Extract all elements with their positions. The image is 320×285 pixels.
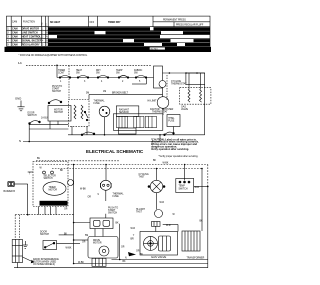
wire labels above [86, 91, 129, 95]
svg-text:CONT: CONT [58, 73, 65, 75]
gas valve coil labels [125, 228, 144, 260]
wire top y94.6 [89, 94, 163, 96]
svg-text:W-BK: W-BK [66, 248, 72, 250]
svg-text:SW: SW [134, 73, 139, 75]
svg-text:W: W [40, 168, 43, 170]
timer chart interval bars row5 [48, 43, 144, 46]
svg-text:SW: SW [116, 73, 121, 75]
svg-text:W-R: W-R [131, 228, 136, 230]
wire timer left tap [28, 171, 33, 173]
svg-text:SWITCH: SWITCH [179, 189, 188, 191]
timer chart row labels [7, 28, 48, 47]
wire chain stub [132, 78, 146, 85]
svg-text:SWITCH: SWITCH [44, 178, 53, 180]
cycling thermostat circle [159, 81, 166, 88]
svg-text:THERMOSTAT: THERMOSTAT [171, 83, 187, 86]
buzzer symbol [8, 181, 15, 186]
svg-text:N: N [19, 139, 21, 143]
timer contact switch 4 [118, 76, 129, 79]
radiant sensor box [116, 106, 139, 117]
svg-text:CAM: CAM [12, 32, 18, 35]
svg-text:DRIVE MOTOR: DRIVE MOTOR [22, 28, 39, 31]
timer sequence chart black title bar [5, 47, 212, 52]
timer chart header labels [12, 18, 204, 26]
cycling thermostat label [171, 81, 187, 86]
wire top right y73 [163, 72, 205, 74]
svg-text:ELECTRICAL SCHEMATIC: ELECTRICAL SCHEMATIC [86, 149, 144, 154]
ignitor sub box 3 [145, 116, 156, 127]
svg-text:1A BU: 1A BU [41, 117, 48, 120]
svg-text:3: 3 [42, 37, 44, 39]
svg-text:W: W [173, 214, 176, 216]
svg-text:THST: THST [136, 212, 143, 214]
svg-text:2: 2 [122, 81, 124, 83]
wire y129 [29, 128, 68, 130]
temp switch label [179, 186, 188, 191]
wire right bus dashed top [207, 165, 209, 187]
svg-text:OR: OR [88, 197, 92, 199]
svg-text:HI-LIMIT: HI-LIMIT [148, 101, 158, 103]
svg-text:T: T [29, 174, 31, 176]
svg-text:SWITCH: SWITCH [40, 234, 49, 236]
push-to-start label (lower) [108, 208, 118, 215]
svg-text:TIMER SEQUENCE CHART (60 HZ.): TIMER SEQUENCE CHART (60 HZ.) [8, 48, 86, 52]
gas valve coils dashed box [180, 88, 211, 105]
svg-text:THERMOSTAT: THERMOSTAT [152, 111, 168, 114]
svg-text:NO HEAT: NO HEAT [50, 21, 61, 24]
svg-text:SWITCH: SWITCH [52, 91, 61, 93]
door switch label [28, 113, 37, 118]
push-to-start switch symbol [48, 66, 69, 104]
right small box [186, 73, 205, 85]
wire N bus [23, 141, 160, 143]
timer right contact circle [68, 180, 74, 186]
svg-text:W-BK: W-BK [163, 163, 169, 165]
wire motor switch box drop 2 [57, 121, 59, 125]
wire right edge vertical [204, 85, 206, 135]
wire contact chain [57, 77, 154, 79]
svg-text:FUSE: FUSE [168, 121, 175, 123]
svg-text:FUSE: FUSE [113, 196, 120, 198]
svg-text:9: 9 [98, 194, 100, 196]
svg-text:Verify operation after servici: Verify operation after servicing. [151, 147, 189, 151]
wire labels bottom [64, 234, 126, 264]
svg-text:OR: OR [121, 247, 125, 249]
gas valve coil 1 [188, 90, 190, 103]
thermal fuse label (schematic) [94, 100, 106, 106]
cycling thermostat label (lower) [139, 174, 149, 179]
dashed timer boundary right [166, 75, 168, 100]
ignitor assembly box [113, 114, 162, 131]
wire motor drops [72, 126, 160, 141]
wire motor circle drop [104, 117, 106, 135]
svg-text:W-BK: W-BK [80, 189, 86, 191]
drive motor dashed box [68, 100, 89, 127]
svg-text:OR: OR [64, 209, 68, 211]
svg-text:CAM: CAM [12, 44, 18, 47]
gas valve box (lower) [140, 232, 178, 256]
svg-text:W-R: W-R [166, 225, 171, 227]
wire dashed top3 [52, 168, 202, 170]
svg-text:1: 1 [42, 29, 44, 31]
svg-text:BROKEN BELT: BROKEN BELT [112, 93, 129, 95]
filter ground symbol [23, 241, 28, 248]
svg-text:THST: THST [139, 177, 146, 179]
svg-text:(60 HZ.): (60 HZ.) [151, 48, 159, 50]
wire buzzer right [14, 183, 27, 185]
svg-text:3: 3 [84, 81, 86, 83]
timer contacts [43, 171, 54, 174]
thermal fuse label (lower) [113, 193, 125, 199]
wire thermal fuse to push-to-start [105, 214, 107, 218]
gas valve label (schematic) [181, 106, 189, 112]
svg-text:BR: BR [131, 239, 135, 241]
svg-text:TIMED DRY: TIMED DRY [108, 22, 121, 24]
svg-text:SW: SW [76, 73, 81, 75]
svg-text:BUZZER B: BUZZER B [4, 191, 16, 193]
timer motor ellipse [43, 182, 66, 196]
ground GND [15, 97, 25, 111]
wire line A y134.8 [68, 134, 205, 136]
svg-text:* FOR USE ON MODELS EQUIPPED W: * FOR USE ON MODELS EQUIPPED WITH DRYNES… [19, 55, 88, 57]
svg-text:OR: OR [82, 242, 86, 244]
motor switch box [48, 106, 71, 122]
svg-text:BK: BK [64, 234, 68, 236]
svg-text:4: 4 [7, 40, 9, 43]
svg-text:CAM: CAM [12, 36, 18, 39]
svg-text:W-R: W-R [195, 187, 200, 189]
svg-text:BK: BK [200, 221, 204, 223]
svg-text:A: A [46, 36, 48, 39]
svg-text:3: 3 [7, 36, 9, 39]
exhaust fan tall box [154, 66, 163, 88]
svg-text:BK: BK [60, 170, 64, 172]
wire filter bottom stub [17, 263, 19, 268]
wire thermal fuse down [105, 190, 107, 201]
wire coil drops [189, 73, 201, 90]
wire motor switch box drop [49, 121, 51, 129]
wire dashed left y214.7 [15, 214, 73, 216]
junction dots [169, 72, 198, 74]
wire temp switch to bus [194, 186, 208, 188]
svg-text:PRESS REGULAR FLUFF: PRESS REGULAR FLUFF [176, 24, 204, 27]
timer contact switch 5 [135, 76, 147, 79]
svg-text:5M: 5M [86, 93, 89, 95]
door switch symbol [29, 121, 41, 125]
push-to-start switch label [52, 86, 62, 93]
hi-limit label [148, 101, 169, 114]
svg-text:REGULAR DRY: REGULAR DRY [22, 44, 40, 47]
svg-text:BU: BU [140, 254, 144, 256]
push-to-start box (lower) [90, 218, 113, 229]
wire dashed left vertical 2 [18, 215, 20, 240]
drive motor circle M [99, 106, 110, 117]
svg-text:CAM: CAM [12, 28, 18, 31]
chain terminal labels below [60, 81, 141, 83]
hi-limit label (lower) [136, 209, 146, 214]
drive motor box (lower) [88, 237, 118, 259]
wire mid vertical x73.6 [73, 165, 75, 264]
wire door switch to N [28, 124, 30, 142]
wire motor feed [74, 239, 88, 241]
heat switch on line A [164, 132, 175, 136]
svg-text:5M: 5M [85, 235, 88, 237]
wires door switch right [56, 235, 80, 244]
wire dashed top1 [36, 160, 120, 162]
selector switch label [44, 176, 57, 181]
wire thermal fuse box drop [173, 127, 175, 133]
wire L1 dashed bus [26, 64, 152, 66]
svg-text:CAM: CAM [12, 40, 18, 43]
svg-text:C: C [46, 29, 48, 31]
ignitor labels [150, 109, 174, 111]
svg-text:W-R: W-R [160, 202, 165, 204]
svg-text:TRANSFORMER: TRANSFORMER [187, 257, 205, 260]
svg-text:5: 5 [139, 81, 141, 83]
svg-text:OFF: OFF [90, 22, 95, 24]
svg-text:HEAT CONTROL: HEAT CONTROL [22, 36, 42, 39]
door switch symbol (lower) [43, 241, 57, 250]
svg-text:PERMANENT PRESS: PERMANENT PRESS [163, 18, 186, 21]
timer contact switch 2 [77, 76, 89, 79]
timer dashed box [33, 162, 68, 207]
radio interference filter block [12, 240, 22, 263]
svg-text:LINE SWITCH: LINE SWITCH [22, 32, 38, 35]
svg-text:SWITCH: SWITCH [28, 115, 37, 117]
wire dashed left vertical 1 [14, 215, 16, 240]
motor start winding [74, 105, 76, 119]
svg-text:BK: BK [153, 160, 157, 162]
transformer box [182, 231, 200, 251]
wire bus drop to contact chain [56, 65, 58, 78]
terminal block note [33, 258, 59, 266]
timer contact switch 1 [59, 76, 71, 79]
wire thermal fuse drop [105, 165, 107, 181]
svg-text:FUSE: FUSE [94, 103, 101, 105]
timer chart table frame [7, 16, 211, 46]
belt switch symbol on line A [81, 132, 95, 136]
wire dashed top2 [36, 164, 208, 166]
wire push-to-start drop [94, 229, 96, 237]
wire buzzer drop [27, 184, 29, 215]
svg-text:SENSOR: SENSOR [119, 112, 129, 114]
wire labels gas valve left [0, 0, 1, 1]
svg-text:BK: BK [116, 223, 120, 225]
svg-text:ON SOME MODELS): ON SOME MODELS) [33, 264, 55, 266]
caution note [151, 137, 199, 151]
svg-text:CAM: CAM [12, 21, 17, 24]
motor centrifugal switch [84, 111, 88, 121]
drive motor label (lower) [93, 240, 102, 245]
wire hi-limit to gas valve horizontals [163, 225, 178, 232]
svg-text:VALVE: VALVE [181, 108, 189, 111]
gas valve pointer arrow [128, 252, 136, 256]
svg-text:GND: GND [15, 97, 21, 101]
svg-text:TEMP: TEMP [179, 186, 186, 188]
door switch label (lower) [40, 232, 49, 237]
svg-text:GAS VALVE: GAS VALVE [151, 255, 166, 259]
wire top wire left drop [88, 95, 90, 100]
svg-text:L1: L1 [18, 61, 22, 65]
wire y124.6 [29, 124, 68, 126]
timer black bar [40, 201, 68, 206]
ignitor sub box 2 [134, 116, 144, 127]
motor connector box [92, 258, 106, 266]
svg-text:SW: SW [42, 22, 44, 25]
svg-text:SIGNAL BUZZER: SIGNAL BUZZER [22, 40, 42, 43]
svg-text:2: 2 [7, 32, 9, 35]
svg-text:1: 1 [7, 28, 9, 31]
timer contact switch 3 [97, 76, 109, 79]
timer chart interval bars row2 [48, 31, 94, 34]
timer chart interval bars row4 [48, 39, 123, 42]
gas valve coil 2 [200, 90, 202, 103]
svg-text:CT: CT [46, 22, 48, 25]
svg-text:FUNCTION: FUNCTION [23, 22, 35, 24]
wire push-to-start feed [74, 222, 90, 224]
ignitor sub box 1 [117, 116, 128, 127]
timer chart interval bars row3 [57, 35, 160, 38]
timer chart interval bars row1 [48, 27, 210, 46]
small box on line A [119, 128, 137, 134]
svg-text:*Verify proper operation after: *Verify proper operation after servicing… [159, 155, 199, 158]
svg-text:BU: BU [37, 158, 41, 160]
wire vertical right chain [162, 88, 165, 116]
temp switch box [176, 179, 194, 193]
svg-text:OR: OR [136, 250, 140, 252]
svg-text:SWITCH: SWITCH [54, 112, 63, 114]
cycling thermostat symbol (lower) [148, 180, 165, 192]
svg-text:MOTOR: MOTOR [49, 190, 58, 192]
wires bottom [14, 165, 208, 268]
svg-text:TIMER (BACK): TIMER (BACK) [41, 202, 56, 205]
svg-text:SWITCH: SWITCH [108, 213, 117, 215]
svg-text:1M: 1M [103, 91, 106, 93]
svg-text:4: 4 [101, 81, 103, 83]
svg-text:1: 1 [60, 81, 62, 83]
svg-text:BK: BK [123, 261, 127, 263]
hi-limit thermostat circle [157, 97, 169, 109]
thermal fuse component [100, 180, 111, 190]
hi-limit symbol (lower) [152, 210, 163, 227]
filter pointer arrow [23, 257, 32, 261]
svg-text:MOTOR: MOTOR [93, 243, 102, 245]
timer bottom drop wires [38, 207, 56, 215]
svg-text:Y: Y [133, 235, 135, 237]
motor main winding [81, 105, 83, 119]
thermal fuse box right [167, 115, 180, 127]
svg-text:SW: SW [96, 73, 101, 75]
